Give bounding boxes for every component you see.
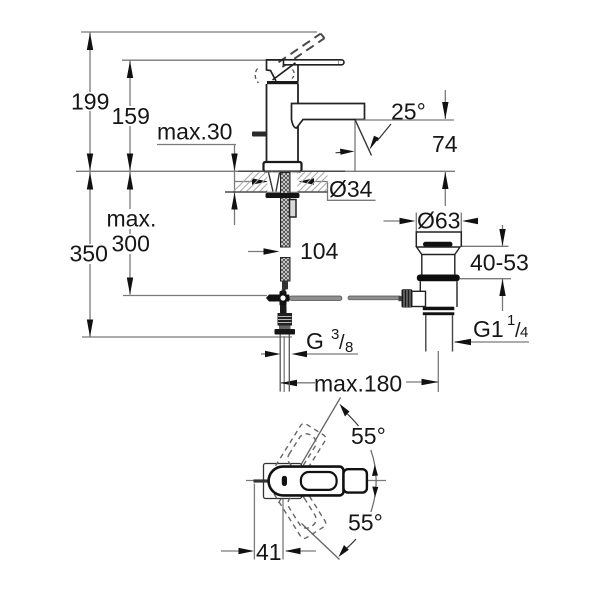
hex nut left xyxy=(266,295,277,302)
lower rotated position centerline xyxy=(302,524,340,560)
svg-text:55°: 55° xyxy=(348,510,383,536)
ref line counter top xyxy=(76,170,455,172)
tee cross xyxy=(277,295,290,302)
svg-text:8: 8 xyxy=(345,339,353,356)
arrow 350 top up xyxy=(87,172,93,190)
svg-text:G1: G1 xyxy=(473,316,504,342)
leader Ø34 right to label xyxy=(311,181,328,183)
arrow Ø34 right left-pointing xyxy=(299,178,315,184)
knob stem xyxy=(399,296,402,301)
arrow 74 top down xyxy=(442,102,448,119)
handle tip xyxy=(344,469,367,492)
ref 40-53 bottom (O-ring) xyxy=(460,278,511,280)
arrow max300 bottom down xyxy=(127,278,133,295)
dashed rotated handles xyxy=(263,422,327,540)
svg-text:159: 159 xyxy=(112,103,150,129)
svg-text:199: 199 xyxy=(71,89,109,115)
25 deg ref line under text xyxy=(356,119,454,121)
arrow 104 right-pointing xyxy=(264,248,280,254)
upper rotated position centerline xyxy=(279,398,341,504)
dim line 159/max300 xyxy=(129,60,131,294)
arrow 74 bottom up xyxy=(442,172,448,189)
25 deg slant line xyxy=(355,120,371,156)
arrow 40-53 top down xyxy=(499,229,505,246)
drain centerline xyxy=(437,351,439,392)
base plate square xyxy=(264,464,302,499)
supply pipe lines xyxy=(280,335,289,392)
pivot swing dashed arcs xyxy=(255,69,294,84)
arrow G3/8 left right-pointing xyxy=(265,351,281,357)
threaded rod lower xyxy=(281,258,291,282)
arrow 41 right left-pointing xyxy=(285,548,301,554)
svg-text:Ø34: Ø34 xyxy=(329,176,373,202)
leader G1 1/4 xyxy=(455,341,529,343)
svg-text:104: 104 xyxy=(300,238,339,264)
arrow Ø34 left right-pointing xyxy=(252,178,269,184)
dim line 199/350 xyxy=(89,32,91,337)
arrow 41 left right-pointing xyxy=(239,548,255,554)
base plate xyxy=(264,162,302,172)
25 deg angle arrows xyxy=(336,151,347,154)
faucet supply centerline xyxy=(283,336,285,392)
arrow max180 right-pointing xyxy=(422,379,439,385)
plug cap dark xyxy=(423,242,453,247)
body left tab xyxy=(252,132,267,137)
leader Ø63 right xyxy=(465,220,478,222)
arrow Ø63 right left-pointing xyxy=(462,218,478,224)
leader 41 right xyxy=(286,550,316,552)
faucet body xyxy=(267,84,299,162)
ext 41 left xyxy=(253,484,255,560)
arrow 199 top up xyxy=(87,33,93,51)
ref line top of raised lever (199 top) xyxy=(81,31,317,33)
spout xyxy=(292,104,365,129)
svg-text:41: 41 xyxy=(256,539,282,565)
fitting below node xyxy=(280,306,287,314)
svg-text:74: 74 xyxy=(432,131,458,157)
threaded rod upper xyxy=(281,173,291,248)
ref line max.30 underline xyxy=(157,144,236,146)
leader 41 left xyxy=(221,550,252,552)
svg-text:max.: max. xyxy=(107,206,157,232)
leader 104 xyxy=(248,251,266,253)
arrow Ø63 left right-pointing xyxy=(400,218,416,224)
O-ring seal xyxy=(417,275,460,282)
handle inner rounded rect xyxy=(301,472,337,490)
cap cylinder xyxy=(416,232,461,247)
tailpipe xyxy=(426,315,453,351)
cone lines xyxy=(269,173,280,192)
ref line hose level (max.300 bottom) xyxy=(123,295,267,297)
white backing xyxy=(267,172,297,192)
arrow 159 bottom down xyxy=(127,154,133,172)
locking nut xyxy=(266,193,300,198)
fitting above node xyxy=(282,290,286,293)
cartridge base thick bar xyxy=(267,81,299,84)
leader max180 left xyxy=(281,382,315,384)
arc arrow up xyxy=(372,465,378,477)
rod side tab xyxy=(290,200,297,218)
valve body xyxy=(420,281,457,307)
counter hatch xyxy=(234,172,328,192)
dim line 40-53 top xyxy=(502,225,504,246)
spout stub left xyxy=(254,479,270,482)
ext 41 right xyxy=(282,499,284,560)
swing arc xyxy=(371,450,376,512)
ext Ø63 right xyxy=(460,213,462,235)
svg-text:300: 300 xyxy=(112,231,150,257)
ref line top of lever rest (159 top) xyxy=(122,59,285,61)
ref 40-53 top (flange underside) xyxy=(460,245,509,247)
lever bar xyxy=(284,60,345,65)
arrow max300 top up xyxy=(127,172,133,190)
rod tip xyxy=(282,281,288,290)
svg-text:Ø63: Ø63 xyxy=(417,208,460,234)
arrow 159 top up xyxy=(127,61,133,78)
dim line 40-53 bottom xyxy=(502,279,504,311)
arrow G3/8 right left-pointing xyxy=(292,351,308,357)
handle body bold outline xyxy=(269,467,344,496)
arrow G1 1/4 left-pointing xyxy=(454,339,472,345)
leader Ø34 left xyxy=(235,181,253,183)
dim line 74 xyxy=(444,90,446,119)
dashed raised lever xyxy=(279,34,325,67)
upper cylinder xyxy=(422,255,455,275)
side port white box xyxy=(412,291,426,306)
55 bottom label arrow xyxy=(339,545,349,557)
arrow 350 bottom down xyxy=(87,320,93,338)
25 deg vertical ref xyxy=(354,120,356,171)
body bottom bands xyxy=(423,307,455,311)
arc arrow down xyxy=(372,487,378,498)
leader max180 right xyxy=(406,381,439,383)
leader G3/8 left xyxy=(261,353,268,355)
ref line supply end (350 bottom) xyxy=(82,336,292,338)
arrow 40-53 bottom up xyxy=(499,279,505,296)
dim line max.30 xyxy=(234,145,236,226)
arrow max180 left-pointing xyxy=(280,380,297,386)
svg-text:4: 4 xyxy=(520,324,528,341)
svg-text:40-53: 40-53 xyxy=(470,250,529,276)
25 deg leader xyxy=(377,124,391,141)
label box Ø34 xyxy=(328,182,376,201)
arrow max30 down to counter top xyxy=(231,154,237,172)
svg-text:350: 350 xyxy=(70,241,108,267)
svg-text:G: G xyxy=(306,328,324,354)
counter top darker segment xyxy=(238,170,345,172)
svg-text:55°: 55° xyxy=(351,423,386,449)
arrow 199 bottom down xyxy=(87,154,93,172)
svg-text:max.30: max.30 xyxy=(157,119,232,145)
flange trapezoid xyxy=(417,247,461,255)
side knurled knob xyxy=(402,289,413,307)
lever pivot / cartridge xyxy=(267,60,299,81)
svg-text:max.180: max.180 xyxy=(314,371,402,397)
counter bottom line xyxy=(225,191,328,193)
ext Ø63 left xyxy=(415,213,417,235)
55 top label arrow xyxy=(340,404,350,417)
plan centerline xyxy=(246,480,386,482)
handle slot xyxy=(282,476,287,486)
arrow max30 up to counter bottom xyxy=(231,193,237,210)
leader G3/8 right + underline xyxy=(303,353,358,355)
leader Ø63 left xyxy=(384,220,403,222)
